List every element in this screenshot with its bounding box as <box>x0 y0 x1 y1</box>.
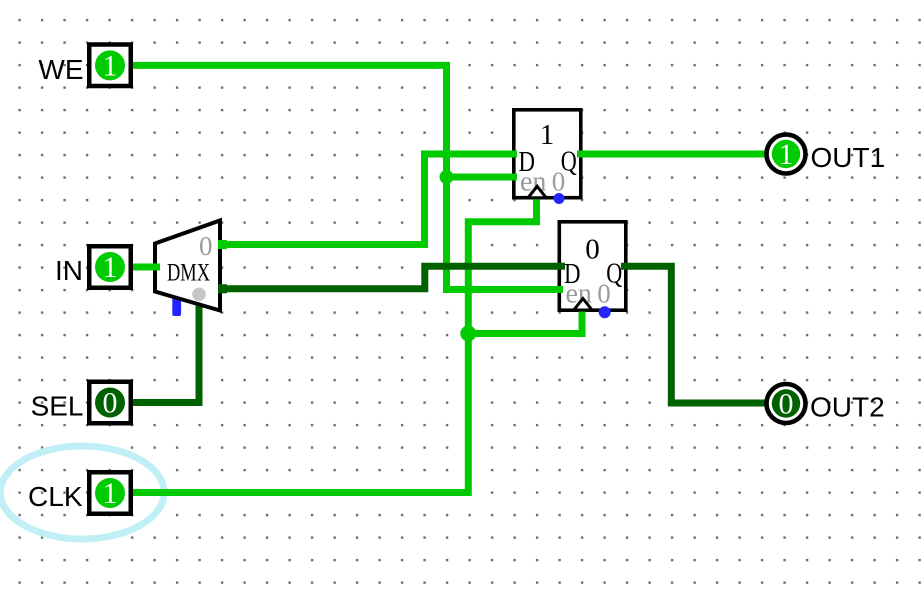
svg-text:SEL: SEL <box>31 391 84 422</box>
output pin OUT2 value circle <box>772 388 800 421</box>
svg-text:DMX: DMX <box>167 260 210 287</box>
DMX floating enable stub (blue) <box>172 297 181 316</box>
U2 pin label Q <box>606 258 622 290</box>
svg-text:0: 0 <box>779 388 794 421</box>
label OUT1 <box>811 142 886 173</box>
DMX output 0 gray label <box>199 231 213 261</box>
svg-text:1: 1 <box>103 49 118 82</box>
flip-flop U1 body <box>514 110 581 198</box>
U1 pin label Q <box>561 146 577 178</box>
U2 pin label D <box>564 258 581 290</box>
svg-text:OUT2: OUT2 <box>810 392 885 423</box>
U1 clock triangle <box>528 186 546 198</box>
svg-text:1: 1 <box>103 251 118 284</box>
wire CLK net branch: junction to U2 clock <box>468 308 582 334</box>
input pin CLK value circle <box>95 477 125 510</box>
svg-text:0: 0 <box>199 231 213 261</box>
wire WE net branch: junction to U1 en <box>447 174 518 181</box>
wire CLK net: CLK pin, up, to U1 clock <box>124 196 537 493</box>
wire U1 Q to OUT1 <box>577 151 767 158</box>
svg-text:1: 1 <box>103 477 118 510</box>
U2 pin label en <box>566 279 592 310</box>
wire IN pin to DMX input <box>124 264 160 271</box>
U1 stored value 1 <box>540 119 555 151</box>
U2 clock triangle <box>574 299 592 311</box>
input pin SEL value circle <box>95 387 125 420</box>
wire DMX out0 to U1 D <box>218 154 517 245</box>
input pin CLK box <box>89 472 131 514</box>
label WE <box>38 54 83 85</box>
output pin OUT2 ring <box>767 384 806 423</box>
svg-text:WE: WE <box>38 54 83 85</box>
label OUT2 <box>810 392 885 423</box>
U1 pin label D <box>519 146 536 178</box>
wire SEL pin to DMX select <box>124 301 199 403</box>
svg-text:1: 1 <box>779 138 794 171</box>
input pin IN value circle <box>95 251 125 284</box>
svg-text:1: 1 <box>540 119 555 151</box>
wire U2 Q to OUT2 <box>621 266 767 403</box>
label SEL <box>31 391 84 422</box>
junction on CLK net <box>460 326 476 342</box>
svg-text:CLK: CLK <box>28 481 83 512</box>
svg-text:OUT1: OUT1 <box>811 142 886 173</box>
demultiplexer DMX body <box>155 221 220 311</box>
output pin OUT1 ring <box>767 135 806 174</box>
input pin WE box <box>89 45 131 87</box>
wire WE net: WE pin to corner, down past junction, to U2 en <box>124 65 563 289</box>
input pin IN box <box>89 246 131 288</box>
svg-text:0: 0 <box>585 234 600 266</box>
label IN <box>55 255 83 286</box>
DMX out1 pin nub <box>218 284 227 293</box>
svg-text:0: 0 <box>103 387 118 420</box>
highlight ellipse around CLK <box>0 446 164 539</box>
output pin OUT1 value circle <box>772 138 800 171</box>
input pin WE value circle <box>95 49 125 82</box>
wire DMX out1 to U2 D <box>218 266 565 289</box>
label CLK <box>28 481 83 512</box>
flip-flop U2 body <box>559 222 626 310</box>
U2 floating reset dot (blue) <box>599 306 611 318</box>
DMX label <box>167 260 210 287</box>
input pin SEL box <box>89 382 131 424</box>
U1 floating reset dot (blue) <box>554 193 565 204</box>
DMX out0 pin nub <box>218 240 227 249</box>
U1 pin label en <box>520 167 546 198</box>
svg-text:0: 0 <box>552 167 566 197</box>
U2 stored value 0 <box>585 234 600 266</box>
DMX select marker dot <box>192 288 206 302</box>
U2 enable value 0 (gray) <box>597 279 611 309</box>
U1 enable value 0 (gray) <box>552 167 566 197</box>
junction on WE net <box>440 170 454 184</box>
svg-text:0: 0 <box>597 279 611 309</box>
svg-text:IN: IN <box>55 255 83 286</box>
